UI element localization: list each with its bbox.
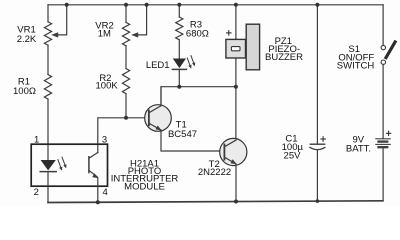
module IR LED triangle <box>41 160 56 170</box>
capacitor C1 top plate <box>310 143 324 145</box>
svg-text:2N2222: 2N2222 <box>198 167 231 178</box>
wire: right edge from top bus to switch <box>382 5 384 45</box>
wire: R2 bottom to junction <box>125 94 127 118</box>
svg-text:1: 1 <box>34 135 39 146</box>
svg-text:25V: 25V <box>284 151 302 162</box>
switch S1 bottom contact <box>381 60 385 64</box>
piezo element PZ1 square <box>226 39 246 58</box>
wire: VR1 top lead <box>47 5 49 22</box>
module phototransistor emitter arrowhead <box>92 173 98 178</box>
svg-text:BC547: BC547 <box>168 129 197 140</box>
module phototransistor collector <box>89 152 98 158</box>
wire: ground bus <box>48 201 383 203</box>
node: T2 emitter on ground bus <box>234 200 238 204</box>
resistor R2 100K <box>122 69 129 94</box>
PZ1 plus sign <box>227 31 232 36</box>
node: C1 on ground bus <box>316 199 320 203</box>
node: VR1 wiper on top bus <box>65 3 69 7</box>
VR2 wiper arrowhead <box>131 32 138 37</box>
wire: T2 emitter to ground bus <box>235 164 237 201</box>
node: pin 4 on ground bus <box>96 200 100 204</box>
wire: module LED cathode to pin 2 <box>47 172 49 203</box>
svg-text:680Ω: 680Ω <box>186 29 209 40</box>
piezo buzzer PZ1 body <box>246 24 259 70</box>
wire: battery to ground bus <box>382 147 384 201</box>
svg-text:3: 3 <box>102 135 107 146</box>
wire: switch to battery <box>382 64 384 138</box>
svg-text:MODULE: MODULE <box>124 182 165 193</box>
wire: C1 branch from top bus <box>316 5 318 144</box>
wire: module pin 4 to ground bus <box>97 178 99 202</box>
wire: VR2 wiper from top bus <box>138 5 147 35</box>
wire: R3 top lead <box>178 5 180 17</box>
wire: junction to module pin 3 <box>98 118 126 153</box>
wire: VR2 top lead <box>125 5 127 23</box>
VR1 wiper arrowhead <box>51 32 58 37</box>
T2 emitter <box>224 157 235 164</box>
module LED emission arrow 1 <box>56 159 63 171</box>
T1 emitter arrowhead <box>156 126 162 131</box>
wire: VR1 wiper from top bus <box>58 5 67 35</box>
T2 base bar <box>223 145 225 160</box>
svg-text:BATT.: BATT. <box>346 143 371 154</box>
svg-text:100Ω: 100Ω <box>13 86 36 97</box>
module phototransistor emitter <box>89 170 97 176</box>
svg-text:2.2K: 2.2K <box>17 34 37 45</box>
wire: LED1 to collector rail <box>178 69 180 86</box>
T1 collector <box>149 87 161 113</box>
node: VR2 branch on top bus <box>124 3 128 7</box>
node: LED1 on collector rail <box>177 85 181 89</box>
node: piezo branch on top bus <box>234 3 238 7</box>
node: R3 branch on top bus <box>177 3 181 7</box>
svg-text:2: 2 <box>34 187 39 198</box>
T2 collector <box>224 140 236 147</box>
T1 emitter <box>149 123 161 130</box>
LED1 emission arrow 1 <box>186 57 193 69</box>
svg-text:100K: 100K <box>96 81 119 92</box>
wire: R3 to LED1 <box>178 40 180 59</box>
module IR LED cathode bar <box>40 171 56 173</box>
resistor VR1 (2.2K potentiometer body) <box>44 22 51 45</box>
svg-text:BUZZER: BUZZER <box>265 52 303 63</box>
wire: VR2 to R2 <box>125 46 127 69</box>
transistor T1 BC547 body <box>145 105 172 132</box>
PZ1 slot <box>231 47 240 51</box>
capacitor C1 curved bottom plate <box>310 147 325 149</box>
resistor R3 680 ohm <box>176 17 183 40</box>
wire: piezo branch / T2 collector riser <box>235 5 237 140</box>
transistor T2 2N2222 body <box>220 138 247 165</box>
svg-text:LED1: LED1 <box>146 60 170 71</box>
wire: collector rail <box>161 87 236 105</box>
resistor VR2 (1M potentiometer body) <box>122 22 129 45</box>
wire: VR1 to R1 <box>47 45 49 74</box>
svg-text:SWITCH: SWITCH <box>337 61 375 72</box>
T1 base bar <box>148 111 150 126</box>
battery plus sign <box>386 131 390 135</box>
LED D1 triangle <box>173 59 186 69</box>
module phototransistor base bar <box>88 157 90 173</box>
LED1 emission arrow 2 <box>189 55 196 67</box>
switch S1 top contact <box>381 45 385 49</box>
node: C1 branch on top bus <box>315 3 319 7</box>
wire: T1 emitter to T2 base <box>161 130 224 151</box>
wire: junction to T1 base <box>126 117 148 119</box>
svg-text:1M: 1M <box>98 29 111 40</box>
wire: R1 to module pin 1 <box>47 99 49 160</box>
wire: top supply bus <box>48 4 383 6</box>
wire: C1 to ground bus <box>316 150 318 201</box>
battery B1 9V plates <box>376 139 390 147</box>
svg-text:4: 4 <box>103 187 108 198</box>
C1 plus sign <box>321 137 326 142</box>
LED1 cathode bar <box>172 68 186 70</box>
photo interrupter module box <box>31 144 107 186</box>
module LED emission arrow 2 <box>60 157 67 169</box>
resistor R1 100 ohm <box>44 75 51 100</box>
node: piezo riser on collector rail <box>234 85 238 89</box>
node: R2 / T1 base / pin 3 junction <box>124 116 128 120</box>
T2 emitter arrowhead <box>231 159 237 164</box>
switch S1 blade <box>385 41 396 59</box>
node: VR2 wiper on top bus <box>145 3 149 7</box>
